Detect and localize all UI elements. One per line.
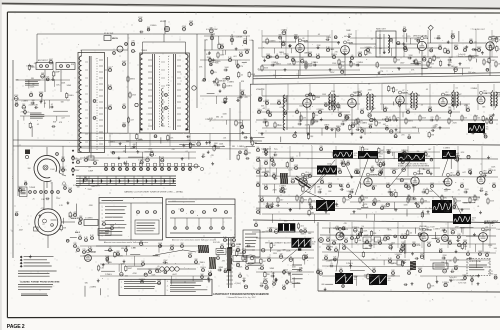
svg-text:1MEG: 1MEG (331, 54, 337, 56)
svg-text:270: 270 (274, 149, 277, 151)
svg-text:.25: .25 (342, 66, 345, 68)
svg-text:.047: .047 (494, 38, 498, 40)
svg-text:© Howard W. Sams & Co., Inc. 1: © Howard W. Sams & Co., Inc. 1957 (226, 296, 255, 299)
svg-text:270: 270 (335, 52, 338, 54)
svg-text:To Fig 5-B: To Fig 5-B (458, 54, 465, 56)
svg-text:60c: 60c (388, 280, 391, 282)
svg-text:2.2MEG: 2.2MEG (105, 274, 112, 276)
svg-text:.0047: .0047 (128, 268, 133, 270)
svg-text:2.2MEG: 2.2MEG (226, 85, 233, 87)
svg-text:2.2MEG: 2.2MEG (274, 64, 281, 66)
svg-text:270: 270 (82, 249, 85, 251)
svg-text:.01: .01 (477, 206, 480, 208)
svg-text:.25: .25 (335, 247, 338, 249)
svg-text:100K: 100K (260, 265, 265, 267)
svg-text:.047: .047 (458, 94, 462, 96)
svg-text:220K: 220K (308, 66, 313, 68)
svg-text:5%: 5% (419, 229, 422, 231)
svg-text:5%: 5% (353, 64, 356, 66)
svg-text:.001: .001 (358, 240, 362, 242)
svg-text:680: 680 (210, 28, 213, 30)
svg-text:MHCH: MHCH (112, 38, 119, 40)
svg-text:.001: .001 (353, 92, 357, 94)
svg-text:1MEG: 1MEG (370, 108, 376, 110)
svg-text:270: 270 (21, 112, 24, 114)
svg-text:60c: 60c (312, 244, 315, 246)
svg-text:TRANS: TRANS (141, 49, 148, 52)
svg-text:.01: .01 (451, 269, 453, 271)
svg-text:1MEG: 1MEG (328, 247, 333, 249)
svg-text:1MEG: 1MEG (130, 79, 136, 81)
svg-text:5%: 5% (79, 235, 82, 237)
svg-text:.02: .02 (451, 121, 454, 123)
svg-text:.047: .047 (344, 36, 348, 38)
svg-text:.02: .02 (215, 79, 218, 81)
svg-text:.001: .001 (283, 97, 287, 99)
svg-text:.05: .05 (157, 266, 160, 268)
svg-text:1.5MEG: 1.5MEG (453, 156, 460, 158)
svg-text:1MEG: 1MEG (450, 229, 456, 231)
svg-text:270: 270 (456, 48, 459, 50)
svg-text:5%: 5% (258, 269, 261, 271)
svg-text:V7: V7 (402, 90, 404, 92)
svg-text:1MEG: 1MEG (304, 53, 310, 55)
svg-text:220K: 220K (341, 62, 346, 64)
svg-text:270: 270 (131, 41, 134, 43)
svg-text:220K: 220K (132, 95, 137, 97)
svg-text:10MF: 10MF (454, 45, 460, 47)
svg-text:270: 270 (222, 86, 225, 88)
svg-text:1MEG: 1MEG (215, 61, 221, 63)
svg-text:60c: 60c (336, 206, 339, 208)
svg-text:.05: .05 (426, 89, 429, 91)
svg-text:1MEG: 1MEG (200, 267, 206, 269)
svg-text:470K: 470K (294, 165, 299, 167)
svg-text:470K: 470K (182, 26, 187, 28)
svg-text:.02: .02 (423, 189, 426, 191)
svg-text:.02: .02 (347, 183, 350, 185)
svg-text:.0047: .0047 (61, 169, 66, 171)
svg-text:1.5MEG: 1.5MEG (410, 200, 417, 202)
svg-text:6CG7: 6CG7 (450, 175, 456, 177)
svg-text:.25: .25 (77, 247, 80, 249)
svg-text:60c: 60c (472, 220, 475, 222)
svg-text:.02: .02 (338, 108, 341, 110)
svg-text:.25: .25 (428, 208, 431, 210)
svg-text:.02: .02 (388, 204, 391, 206)
svg-text:.05: .05 (264, 187, 267, 189)
svg-text:.02: .02 (395, 89, 398, 91)
svg-text:1.5MEG: 1.5MEG (150, 25, 157, 27)
svg-text:.047: .047 (15, 212, 19, 214)
svg-text:250V: 250V (75, 170, 80, 172)
svg-text:1MEG: 1MEG (386, 149, 392, 151)
svg-text:.047: .047 (444, 191, 448, 193)
svg-text:.25: .25 (472, 130, 474, 132)
svg-text:.001: .001 (344, 238, 348, 240)
svg-text:PAGE 2: PAGE 2 (7, 324, 25, 330)
svg-text:.25: .25 (109, 247, 112, 249)
svg-text:5%: 5% (24, 181, 27, 183)
svg-text:.05: .05 (409, 233, 412, 235)
svg-text:1.5MEG: 1.5MEG (395, 254, 402, 256)
svg-text:2.2MEG: 2.2MEG (279, 186, 286, 188)
svg-text:VERTICAL LINEARITY ADJUST: VERTICAL LINEARITY ADJUST (265, 242, 292, 245)
svg-text:1MEG: 1MEG (377, 240, 383, 242)
svg-text:250V: 250V (426, 169, 431, 171)
svg-text:.25: .25 (30, 92, 33, 94)
svg-text:680: 680 (417, 95, 420, 97)
svg-text:680: 680 (469, 39, 472, 41)
svg-text:1MEG: 1MEG (377, 38, 383, 40)
svg-text:120K: 120K (189, 21, 194, 23)
svg-text:.047: .047 (428, 149, 432, 151)
svg-text:V17: V17 (450, 172, 453, 174)
svg-text:GANGED CLUTCH DRIVE TUNER W DR: GANGED CLUTCH DRIVE TUNER W DRIVE CORD —… (124, 191, 184, 194)
svg-text:HORIZ: HORIZ (488, 273, 493, 275)
svg-text:.01: .01 (222, 146, 225, 148)
svg-text:2.2MEG: 2.2MEG (434, 38, 441, 40)
svg-text:2.2MEG: 2.2MEG (227, 82, 234, 84)
svg-text:.01: .01 (487, 263, 490, 265)
svg-text:2.2MEG: 2.2MEG (21, 101, 28, 103)
svg-text:1MEG: 1MEG (324, 125, 330, 127)
svg-text:.01: .01 (455, 87, 458, 89)
svg-text:2.2MEG: 2.2MEG (92, 160, 99, 162)
svg-text:270: 270 (449, 261, 452, 263)
svg-text:.02: .02 (273, 245, 276, 247)
svg-text:.001: .001 (233, 56, 237, 58)
svg-text:V9: V9 (347, 40, 349, 42)
svg-text:.01: .01 (474, 42, 477, 44)
svg-text:.02: .02 (363, 243, 366, 245)
svg-text:.02: .02 (267, 109, 270, 111)
svg-text:2.2MEG: 2.2MEG (346, 263, 353, 265)
svg-text:2.2MEG: 2.2MEG (360, 123, 367, 125)
svg-text:10MF: 10MF (477, 47, 483, 49)
svg-text:270: 270 (360, 121, 363, 123)
svg-text:5%: 5% (365, 277, 368, 279)
svg-text:.05: .05 (75, 158, 78, 160)
svg-text:.0047: .0047 (122, 61, 127, 63)
svg-text:.0047: .0047 (220, 55, 225, 57)
svg-text:680: 680 (485, 192, 488, 194)
svg-text:6BG6 AMPL: 6BG6 AMPL (484, 222, 496, 225)
svg-text:270: 270 (401, 135, 404, 137)
svg-text:.001: .001 (243, 39, 247, 41)
svg-text:.0047: .0047 (291, 178, 296, 180)
svg-text:V13: V13 (483, 90, 486, 92)
svg-text:.0047: .0047 (428, 67, 433, 69)
svg-text:150V: 150V (463, 240, 468, 242)
svg-text:1.5 MEG: 1.5 MEG (85, 218, 93, 220)
svg-text:.02: .02 (240, 74, 243, 76)
svg-text:.05: .05 (32, 84, 35, 86)
svg-text:680: 680 (254, 143, 257, 145)
svg-text:680: 680 (411, 198, 414, 200)
svg-text:.01: .01 (489, 121, 492, 123)
svg-text:150V: 150V (496, 229, 500, 231)
svg-text:5%: 5% (408, 135, 411, 137)
svg-text:25K ohm: 25K ohm (468, 72, 476, 74)
svg-text:1MEG: 1MEG (200, 262, 206, 264)
svg-text:10MF: 10MF (348, 34, 352, 36)
svg-text:+: + (291, 274, 292, 276)
svg-text:10MF: 10MF (418, 268, 424, 270)
svg-text:220K: 220K (364, 198, 369, 200)
svg-text:.0047: .0047 (172, 274, 177, 276)
svg-text:ANT INPUT: ANT INPUT (38, 59, 49, 62)
svg-text:2.2MEG: 2.2MEG (267, 227, 274, 229)
svg-text:60c: 60c (379, 156, 382, 158)
svg-text:270: 270 (240, 66, 243, 68)
svg-text:.25: .25 (125, 247, 128, 249)
svg-text:V15: V15 (370, 172, 373, 174)
svg-text:.01: .01 (185, 151, 188, 153)
svg-text:680: 680 (384, 236, 387, 238)
svg-text:.25: .25 (330, 263, 332, 265)
svg-text:680: 680 (243, 278, 246, 280)
svg-text:.047: .047 (61, 118, 65, 120)
svg-text:270: 270 (320, 146, 323, 148)
svg-text:.047: .047 (139, 241, 143, 243)
svg-text:.25: .25 (334, 242, 337, 244)
svg-text:.25: .25 (27, 112, 30, 114)
svg-text:.01: .01 (389, 117, 392, 119)
svg-text:.02: .02 (439, 118, 442, 120)
svg-text:.001: .001 (223, 138, 227, 140)
svg-text:V16: V16 (417, 171, 420, 173)
svg-text:.02: .02 (405, 153, 408, 155)
svg-text:.0047: .0047 (49, 59, 54, 61)
svg-text:.25: .25 (420, 105, 423, 107)
svg-text:.0047: .0047 (148, 148, 153, 150)
svg-text:.02: .02 (221, 116, 224, 118)
svg-text:.001: .001 (124, 275, 128, 277)
svg-text:.05: .05 (307, 178, 310, 180)
svg-text:270: 270 (301, 58, 304, 60)
svg-text:.0047: .0047 (291, 230, 296, 232)
svg-text:100K: 100K (422, 118, 427, 120)
svg-text:.05: .05 (370, 39, 373, 41)
svg-text:270: 270 (403, 244, 406, 246)
svg-text:.05: .05 (351, 55, 354, 57)
svg-text:2.2MEG: 2.2MEG (90, 287, 97, 289)
svg-text:5%: 5% (362, 226, 365, 228)
svg-text:HORIZONTAL: HORIZONTAL (469, 260, 481, 263)
svg-text:1.5MEG: 1.5MEG (281, 29, 288, 31)
svg-text:680: 680 (133, 144, 136, 146)
svg-text:680: 680 (299, 198, 302, 200)
svg-text:2.2MEG: 2.2MEG (29, 105, 36, 107)
svg-text:L3: L3 (80, 50, 82, 52)
svg-text:1MEG: 1MEG (408, 121, 414, 123)
svg-text:CLEARED: FORMAT PRONE WORK WIS: CLEARED: FORMAT PRONE WORK WISE (20, 281, 60, 284)
svg-text:100K: 100K (457, 201, 462, 203)
svg-text:.001: .001 (248, 152, 252, 154)
svg-text:5%: 5% (214, 72, 217, 74)
svg-text:.047: .047 (263, 261, 267, 263)
svg-text:2.2MEG: 2.2MEG (444, 211, 451, 213)
svg-text:680: 680 (444, 198, 447, 200)
svg-text:220K: 220K (468, 169, 473, 171)
svg-text:470K: 470K (256, 209, 261, 211)
svg-text:60c: 60c (426, 158, 429, 160)
svg-text:1.5MEG: 1.5MEG (279, 42, 286, 44)
svg-text:1.5MEG: 1.5MEG (269, 41, 276, 43)
svg-text:TO AUDIO OUT: TO AUDIO OUT (472, 28, 486, 31)
svg-text:.25: .25 (255, 222, 258, 224)
svg-text:.001: .001 (264, 160, 268, 162)
svg-text:1MEG: 1MEG (301, 234, 307, 236)
svg-text:.01: .01 (348, 118, 351, 120)
svg-text:150V: 150V (490, 201, 495, 203)
svg-text:V2: V2 (90, 249, 92, 251)
svg-text:.001: .001 (91, 186, 95, 188)
svg-text:.01: .01 (276, 54, 279, 56)
svg-text:+: + (291, 279, 292, 281)
svg-text:.01: .01 (146, 157, 149, 159)
svg-text:Alternate tuner connections us: Alternate tuner connections used in 'hal… (172, 239, 216, 242)
svg-text:100K: 100K (358, 52, 363, 54)
svg-text:120K: 120K (68, 188, 73, 190)
svg-text:.02: .02 (467, 251, 470, 253)
svg-text:.047: .047 (63, 185, 67, 187)
svg-text:FOCUS: FOCUS (213, 242, 220, 244)
svg-text:.02: .02 (394, 189, 397, 191)
svg-text:DEMODULATOR: DEMODULATOR (413, 35, 428, 38)
svg-text:1MEG: 1MEG (446, 240, 452, 242)
svg-text:270: 270 (460, 183, 463, 185)
svg-text:10MF: 10MF (188, 253, 194, 255)
svg-text:5%: 5% (349, 193, 352, 195)
svg-text:.047: .047 (108, 105, 112, 107)
svg-text:150V: 150V (266, 54, 271, 56)
svg-text:.0047: .0047 (363, 275, 368, 277)
svg-text:.25: .25 (296, 271, 299, 273)
svg-text:.05: .05 (339, 169, 342, 171)
svg-text:1.5MEG: 1.5MEG (443, 147, 450, 149)
svg-text:1.5MEG: 1.5MEG (294, 283, 301, 285)
svg-text:60c: 60c (354, 155, 357, 157)
svg-text:5%: 5% (257, 147, 260, 149)
svg-text:2.2MEG: 2.2MEG (401, 150, 408, 152)
svg-text:100K: 100K (158, 243, 163, 245)
svg-text:.0047: .0047 (491, 60, 496, 62)
svg-text:.01: .01 (371, 240, 374, 242)
svg-text:1.5MEG: 1.5MEG (237, 146, 244, 148)
svg-text:5%: 5% (342, 283, 345, 285)
svg-text:4700: 4700 (166, 85, 170, 87)
svg-text:+L (34V): +L (34V) (234, 283, 241, 285)
svg-text:.01: .01 (232, 242, 235, 244)
svg-text:1.5MEG: 1.5MEG (326, 261, 333, 263)
svg-text:2.2MEG: 2.2MEG (357, 62, 364, 64)
svg-text:10MF: 10MF (308, 64, 314, 66)
svg-text:1.5MEG: 1.5MEG (138, 159, 145, 161)
svg-text:.047: .047 (342, 121, 346, 123)
svg-text:1MEG: 1MEG (326, 37, 331, 39)
svg-text:.047: .047 (223, 80, 227, 82)
svg-text:2.2MEG: 2.2MEG (305, 125, 312, 127)
svg-text:5%: 5% (382, 164, 385, 166)
svg-text:.02: .02 (356, 65, 359, 67)
svg-text:270: 270 (165, 262, 168, 264)
svg-text:.02: .02 (483, 173, 485, 175)
svg-text:.25: .25 (386, 228, 389, 230)
svg-text:250V: 250V (430, 64, 435, 66)
svg-text:2.2MEG: 2.2MEG (471, 88, 478, 90)
svg-text:.047: .047 (130, 120, 134, 122)
svg-text:10MF: 10MF (39, 92, 45, 94)
svg-text:.05: .05 (383, 206, 386, 208)
svg-text:ST-BY SW: ST-BY SW (104, 33, 113, 35)
svg-text:1.5MEG: 1.5MEG (255, 169, 262, 171)
svg-text:BOARD CONNECTIONS SHOWN HERE: BOARD CONNECTIONS SHOWN HERE (398, 165, 430, 168)
svg-text:270: 270 (265, 284, 268, 286)
svg-text:.02: .02 (51, 104, 53, 106)
svg-text:2.2MEG: 2.2MEG (391, 169, 398, 171)
svg-text:100K: 100K (236, 262, 241, 264)
svg-text:TUNER: TUNER (29, 187, 36, 189)
svg-text:270: 270 (369, 279, 372, 281)
svg-text:680: 680 (107, 262, 110, 264)
svg-text:135V: 135V (330, 72, 335, 74)
svg-text:2.2MEG: 2.2MEG (375, 275, 382, 277)
svg-text:MIXER: MIXER (160, 21, 167, 23)
svg-text:680: 680 (216, 117, 219, 119)
svg-text:12BY7: 12BY7 (483, 93, 490, 95)
svg-text:.01: .01 (358, 124, 361, 126)
svg-text:.047: .047 (406, 109, 410, 111)
svg-text:.01: .01 (164, 269, 167, 271)
svg-text:270: 270 (280, 253, 283, 255)
svg-text:V8: V8 (302, 38, 304, 40)
svg-text:.05: .05 (362, 205, 365, 207)
svg-text:.01: .01 (239, 273, 242, 275)
svg-text:.25: .25 (42, 224, 45, 226)
svg-text:RATIO DET: RATIO DET (376, 28, 387, 31)
svg-text:680: 680 (85, 282, 88, 284)
svg-text:100K: 100K (110, 225, 115, 227)
svg-text:A PHOTOFACT STANDARD NOTATION: A PHOTOFACT STANDARD NOTATION SCHEMATIC (213, 293, 269, 296)
svg-text:.05: .05 (88, 167, 91, 169)
svg-text:.02: .02 (263, 108, 266, 110)
svg-text:.01: .01 (75, 92, 78, 94)
svg-text:60c: 60c (486, 129, 489, 131)
svg-text:.047: .047 (280, 200, 284, 202)
svg-text:270: 270 (221, 46, 224, 48)
svg-text:+: + (291, 270, 292, 272)
svg-text:2.2MEG: 2.2MEG (370, 185, 377, 187)
svg-text:270: 270 (407, 184, 410, 186)
svg-text:.047: .047 (319, 189, 323, 191)
svg-text:150V: 150V (478, 251, 483, 253)
svg-text:680: 680 (322, 284, 325, 286)
svg-text:VIDEO IF: VIDEO IF (256, 89, 265, 91)
svg-text:.001: .001 (122, 123, 126, 125)
svg-text:5%: 5% (340, 268, 343, 270)
svg-text:270: 270 (407, 36, 410, 38)
svg-text:.01: .01 (296, 109, 299, 111)
svg-text:V12: V12 (445, 92, 448, 94)
svg-text:.02: .02 (37, 124, 40, 126)
svg-text:2.2MEG: 2.2MEG (442, 282, 449, 284)
svg-text:1.5MEG: 1.5MEG (136, 139, 143, 141)
svg-text:.25: .25 (32, 199, 35, 201)
svg-text:120K: 120K (326, 237, 331, 239)
svg-text:.0047: .0047 (427, 242, 432, 244)
